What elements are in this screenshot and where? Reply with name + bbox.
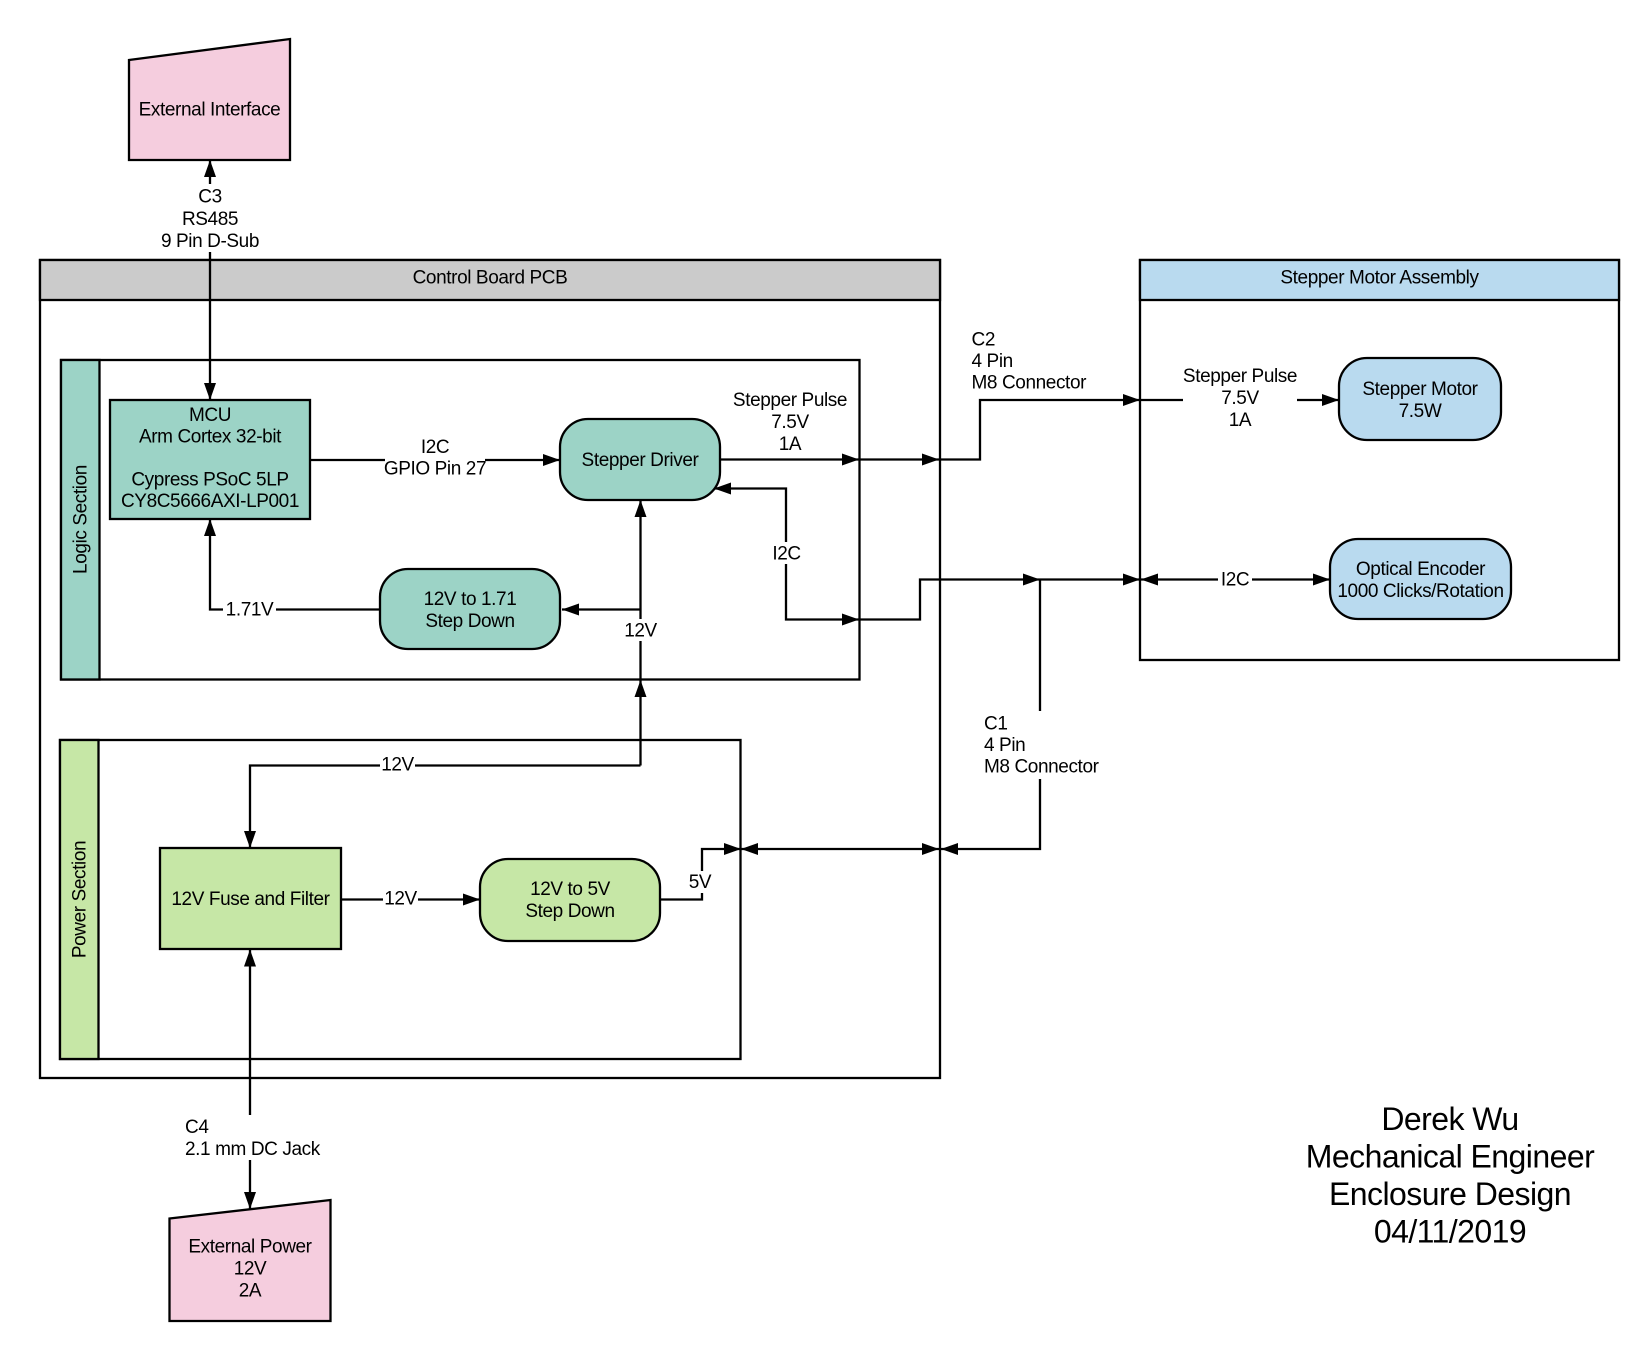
svg-text:5V: 5V [689, 872, 712, 893]
wire Stepper Pulse from Logic edge to PCB edge [860, 454, 939, 466]
wire C3 vertical from External Interface to MCU [204, 160, 216, 400]
svg-text:2A: 2A [239, 1281, 262, 1302]
label 12V power run [380, 753, 415, 776]
svg-text:Stepper Motor Assembly: Stepper Motor Assembly [1280, 268, 1479, 289]
svg-text:12V Fuse and Filter: 12V Fuse and Filter [171, 889, 330, 910]
svg-text:12V: 12V [234, 1259, 267, 1280]
svg-text:Optical Encoder: Optical Encoder [1356, 559, 1486, 580]
label C4 2.1 mm DC Jack [183, 1115, 321, 1160]
svg-text:GPIO Pin 27: GPIO Pin 27 [384, 459, 486, 480]
label Stepper Pulse 7.5V 1A left [733, 390, 847, 455]
wire Stepper Pulse from Stepper Driver to Logic edge [720, 454, 859, 466]
block 12V Fuse and Filter [160, 848, 341, 949]
block Stepper Driver [560, 419, 720, 500]
svg-text:Control Board PCB: Control Board PCB [413, 268, 568, 289]
wire 12V junction to 1.71 step down [562, 608, 641, 610]
label C1 4 Pin M8 Connector [982, 711, 1100, 779]
label I2C loop [770, 542, 803, 565]
label Stepper Pulse 7.5V 1A right [1183, 364, 1297, 431]
svg-text:Derek Wu: Derek Wu [1381, 1101, 1518, 1137]
svg-text:M8 Connector: M8 Connector [972, 373, 1088, 394]
wire 5V from Step Down to Power edge [660, 843, 741, 900]
wire I2C from C1 junction to assembly edge [1040, 574, 1140, 586]
block Stepper Motor [1339, 358, 1501, 440]
label C2 4 Pin M8 Connector [972, 330, 1088, 394]
block External Power [170, 1200, 331, 1321]
wire 1.71V from Step Down to MCU [204, 519, 579, 616]
wire I2C inside assembly to Optical Encoder [1141, 574, 1330, 586]
svg-text:MCU: MCU [189, 405, 231, 426]
svg-text:7.5V: 7.5V [1221, 388, 1259, 409]
block MCU [110, 400, 310, 519]
svg-text:4 Pin: 4 Pin [972, 351, 1013, 372]
svg-text:Stepper Driver: Stepper Driver [582, 450, 700, 471]
svg-text:Stepper Pulse: Stepper Pulse [733, 390, 847, 411]
svg-text:2.1 mm DC Jack: 2.1 mm DC Jack [185, 1139, 321, 1160]
wire I2C loop from Stepper Driver down [714, 483, 859, 626]
svg-text:I2C: I2C [1221, 570, 1249, 591]
svg-text:Enclosure Design: Enclosure Design [1329, 1176, 1571, 1212]
svg-text:Logic Section: Logic Section [71, 465, 92, 574]
svg-text:1000 Clicks/Rotation: 1000 Clicks/Rotation [1337, 581, 1503, 602]
wire 12V horizontal run in power section [244, 766, 641, 849]
container Logic Section [61, 360, 860, 680]
label 1.71V [223, 598, 276, 621]
svg-text:External Interface: External Interface [139, 100, 281, 121]
wire Stepper Pulse inside assembly to Stepper Motor [1141, 394, 1339, 406]
svg-text:Step Down: Step Down [425, 611, 514, 632]
svg-text:12V to 1.71: 12V to 1.71 [424, 589, 517, 610]
svg-text:1A: 1A [1229, 410, 1252, 431]
svg-text:12V: 12V [624, 621, 657, 642]
svg-text:C4: C4 [185, 1117, 209, 1138]
label I2C right [1218, 568, 1252, 591]
label 12V fuse output [383, 887, 418, 910]
svg-text:4 Pin: 4 Pin [984, 735, 1025, 756]
container Power Section [60, 740, 741, 1059]
svg-text:12V: 12V [381, 755, 414, 776]
wire I2C from Logic edge to C1 junction [860, 574, 1040, 620]
block Optical Encoder [1330, 539, 1511, 619]
container Control Board PCB [40, 260, 940, 1078]
container Stepper Motor Assembly [1140, 260, 1619, 660]
wire 12V main vertical from power to Stepper Driver [635, 500, 647, 766]
svg-text:7.5W: 7.5W [1399, 401, 1442, 422]
wire I2C GPIO from MCU to Stepper Driver [310, 454, 560, 466]
block 12V to 5V Step Down [480, 859, 660, 941]
svg-text:Stepper Pulse: Stepper Pulse [1183, 366, 1297, 387]
wire 12V from Fuse to 5V Step Down [341, 894, 480, 906]
wire C2 from PCB edge to Stepper Motor Assembly [941, 394, 1140, 460]
svg-text:M8 Connector: M8 Connector [984, 757, 1100, 778]
svg-text:1.71V: 1.71V [226, 600, 274, 621]
svg-text:12V to 5V: 12V to 5V [530, 879, 611, 900]
label 12V main [623, 619, 658, 642]
block External Interface [129, 39, 290, 160]
svg-text:External Power: External Power [188, 1237, 312, 1258]
svg-text:I2C: I2C [772, 544, 800, 565]
svg-text:Arm Cortex 32-bit: Arm Cortex 32-bit [139, 427, 282, 448]
wire 5V-12V from Power edge to PCB edge [741, 843, 939, 855]
label C3 RS485 9 Pin D-Sub [161, 184, 259, 252]
svg-text:7.5V: 7.5V [771, 412, 809, 433]
svg-text:Mechanical Engineer: Mechanical Engineer [1306, 1139, 1595, 1175]
label I2C GPIO Pin 27 [384, 436, 486, 480]
wire C1 from PCB edge up to I2C junction [941, 580, 1040, 856]
svg-text:9 Pin D-Sub: 9 Pin D-Sub [161, 231, 259, 252]
svg-text:04/11/2019: 04/11/2019 [1374, 1214, 1526, 1250]
svg-text:I2C: I2C [421, 437, 449, 458]
svg-text:Cypress PSoC 5LP: Cypress PSoC 5LP [131, 470, 288, 491]
label 5V [688, 871, 713, 893]
svg-text:12V: 12V [384, 889, 417, 910]
svg-text:RS485: RS485 [182, 209, 238, 230]
label title block Derek Wu [1306, 1101, 1595, 1250]
svg-text:C2: C2 [972, 330, 996, 351]
svg-text:Step Down: Step Down [525, 901, 614, 922]
wire C4 from Fuse down to External Power [244, 950, 256, 1210]
svg-text:C3: C3 [198, 187, 222, 208]
svg-text:Power Section: Power Section [70, 841, 91, 958]
svg-text:C1: C1 [984, 714, 1008, 735]
svg-text:CY8C5666AXI-LP001: CY8C5666AXI-LP001 [121, 491, 299, 512]
block 12V to 1.71 Step Down [380, 569, 560, 649]
svg-text:1A: 1A [779, 434, 802, 455]
svg-text:Stepper Motor: Stepper Motor [1362, 379, 1478, 400]
